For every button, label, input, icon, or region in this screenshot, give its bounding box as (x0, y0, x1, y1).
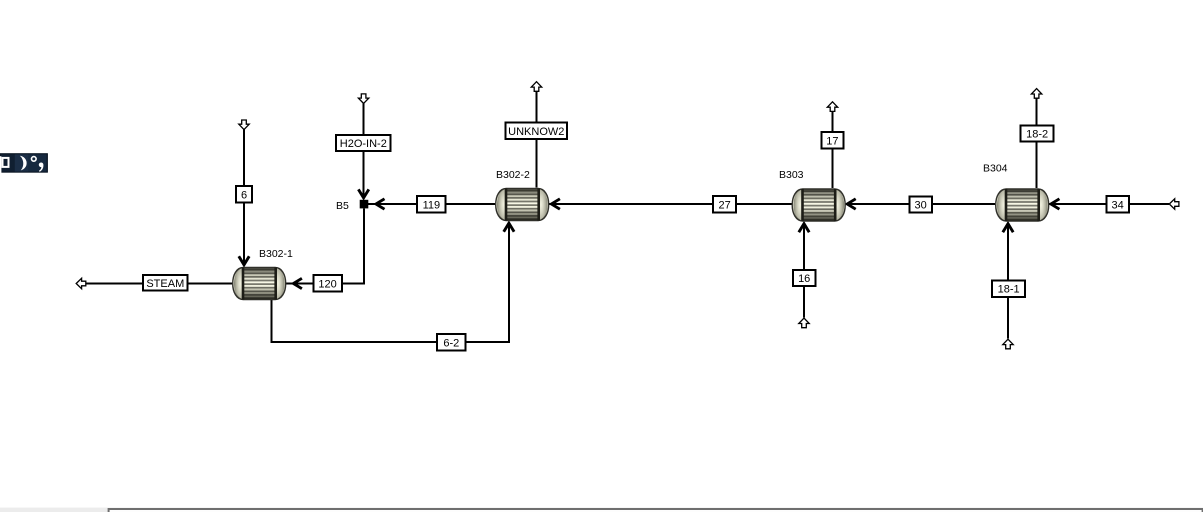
stream label 119 (417, 196, 445, 212)
wire stream STEAM (86, 283, 233, 285)
mixer B5 node (360, 200, 369, 209)
wire stream 18-2 (1036, 97, 1038, 188)
stream label 6 (236, 186, 252, 203)
svg-text:119: 119 (423, 199, 441, 211)
inlet arrowhead stream 120 into B302-1 (292, 278, 302, 288)
stream label 18-2 (1021, 125, 1054, 141)
stream label 30 (909, 196, 931, 212)
wire stream 120 (B5 down, left to B302-1) (285, 208, 364, 283)
svg-text:120: 120 (318, 278, 336, 290)
stream label STEAM (143, 275, 188, 291)
inlet arrowhead stream 18-1 into B304 (1003, 222, 1013, 232)
svg-text:16: 16 (798, 273, 810, 285)
heat exchanger B303 (792, 189, 845, 221)
product arrow UNKNOW2 (hollow, up) (531, 82, 541, 92)
toolbar fragment dark widget (0, 153, 48, 173)
bottom panel (109, 509, 1203, 512)
wire stream 17 (832, 111, 834, 188)
svg-text:30: 30 (914, 200, 926, 212)
stream label UNKNOW2 (506, 123, 567, 140)
wire stream 18-1 (1007, 223, 1009, 339)
svg-text:18-2: 18-2 (1026, 129, 1048, 141)
feed arrow 34 (hollow, left) (1169, 199, 1179, 209)
stream label 18-1 (992, 280, 1025, 296)
svg-text:B302-1: B302-1 (259, 248, 293, 260)
svg-text:34: 34 (1111, 200, 1123, 212)
inlet arrowhead stream 34 into B304 (1049, 199, 1059, 209)
wire stream 119 (368, 203, 495, 205)
wire stream 30 (B304 to B303) (846, 203, 995, 205)
stream label 34 (1107, 196, 1129, 212)
svg-text:H2O-IN-2: H2O-IN-2 (340, 138, 387, 150)
heat exchanger B302-1 (233, 267, 286, 299)
inlet arrowhead stream 6 into B302-1 (239, 256, 249, 266)
stream label H2O-IN-2 (336, 135, 391, 151)
inlet arrowhead stream 16 into B303 (799, 222, 809, 232)
inlet arrowhead stream 6-2 into B302-2 (504, 222, 514, 232)
wire stream 34 (1048, 203, 1169, 205)
stream label 27 (713, 196, 736, 212)
heat exchanger B304 (996, 189, 1049, 221)
wire stream 6-2 (B302-1 bottom to B302-2 bottom) (272, 223, 509, 343)
inlet arrowhead stream 30 into B303 (846, 199, 856, 209)
wire stream H2O-IN-2 vertical (363, 104, 365, 199)
product arrow STEAM (hollow, left) (76, 278, 86, 288)
wire stream UNKNOW2 (536, 91, 538, 188)
svg-text:UNKNOW2: UNKNOW2 (508, 126, 564, 138)
inlet arrowhead stream 27 into B302-2 (550, 199, 560, 209)
product arrow 17 (hollow, up) (827, 102, 837, 112)
svg-text:6: 6 (241, 189, 247, 201)
stream label 17 (821, 132, 843, 148)
stream label 120 (313, 275, 341, 291)
svg-text:B303: B303 (779, 169, 804, 181)
feed arrow H2O-IN-2 (hollow, down) (358, 94, 368, 104)
product arrow 18-2 (hollow, up) (1031, 89, 1041, 99)
bottom scrollbar corner (0, 508, 1203, 512)
inlet arrowhead stream 119 into B5 (374, 199, 384, 209)
wire stream 16 (803, 223, 805, 318)
svg-text:27: 27 (718, 199, 730, 211)
stream label 6-2 (437, 334, 465, 350)
svg-text:B5: B5 (336, 200, 349, 212)
feed arrow 18-1 (hollow, up) (1003, 339, 1013, 349)
svg-text:B302-2: B302-2 (496, 169, 530, 181)
svg-text:17: 17 (826, 136, 838, 148)
heat exchanger B302-2 (496, 188, 549, 220)
wire stream 6 vertical (243, 130, 245, 266)
svg-text:18-1: 18-1 (998, 284, 1020, 296)
svg-text:STEAM: STEAM (146, 278, 184, 290)
feed arrow stream 6 (hollow, down) (239, 120, 249, 130)
wire stream 27 (B303 to B302-2) (549, 203, 792, 205)
inlet arrowhead H2O-IN-2 into B5 (358, 189, 368, 199)
svg-text:B304: B304 (983, 163, 1008, 175)
stream label 16 (793, 270, 815, 286)
feed arrow 16 (hollow, up) (799, 318, 809, 328)
svg-text:6-2: 6-2 (443, 337, 459, 349)
